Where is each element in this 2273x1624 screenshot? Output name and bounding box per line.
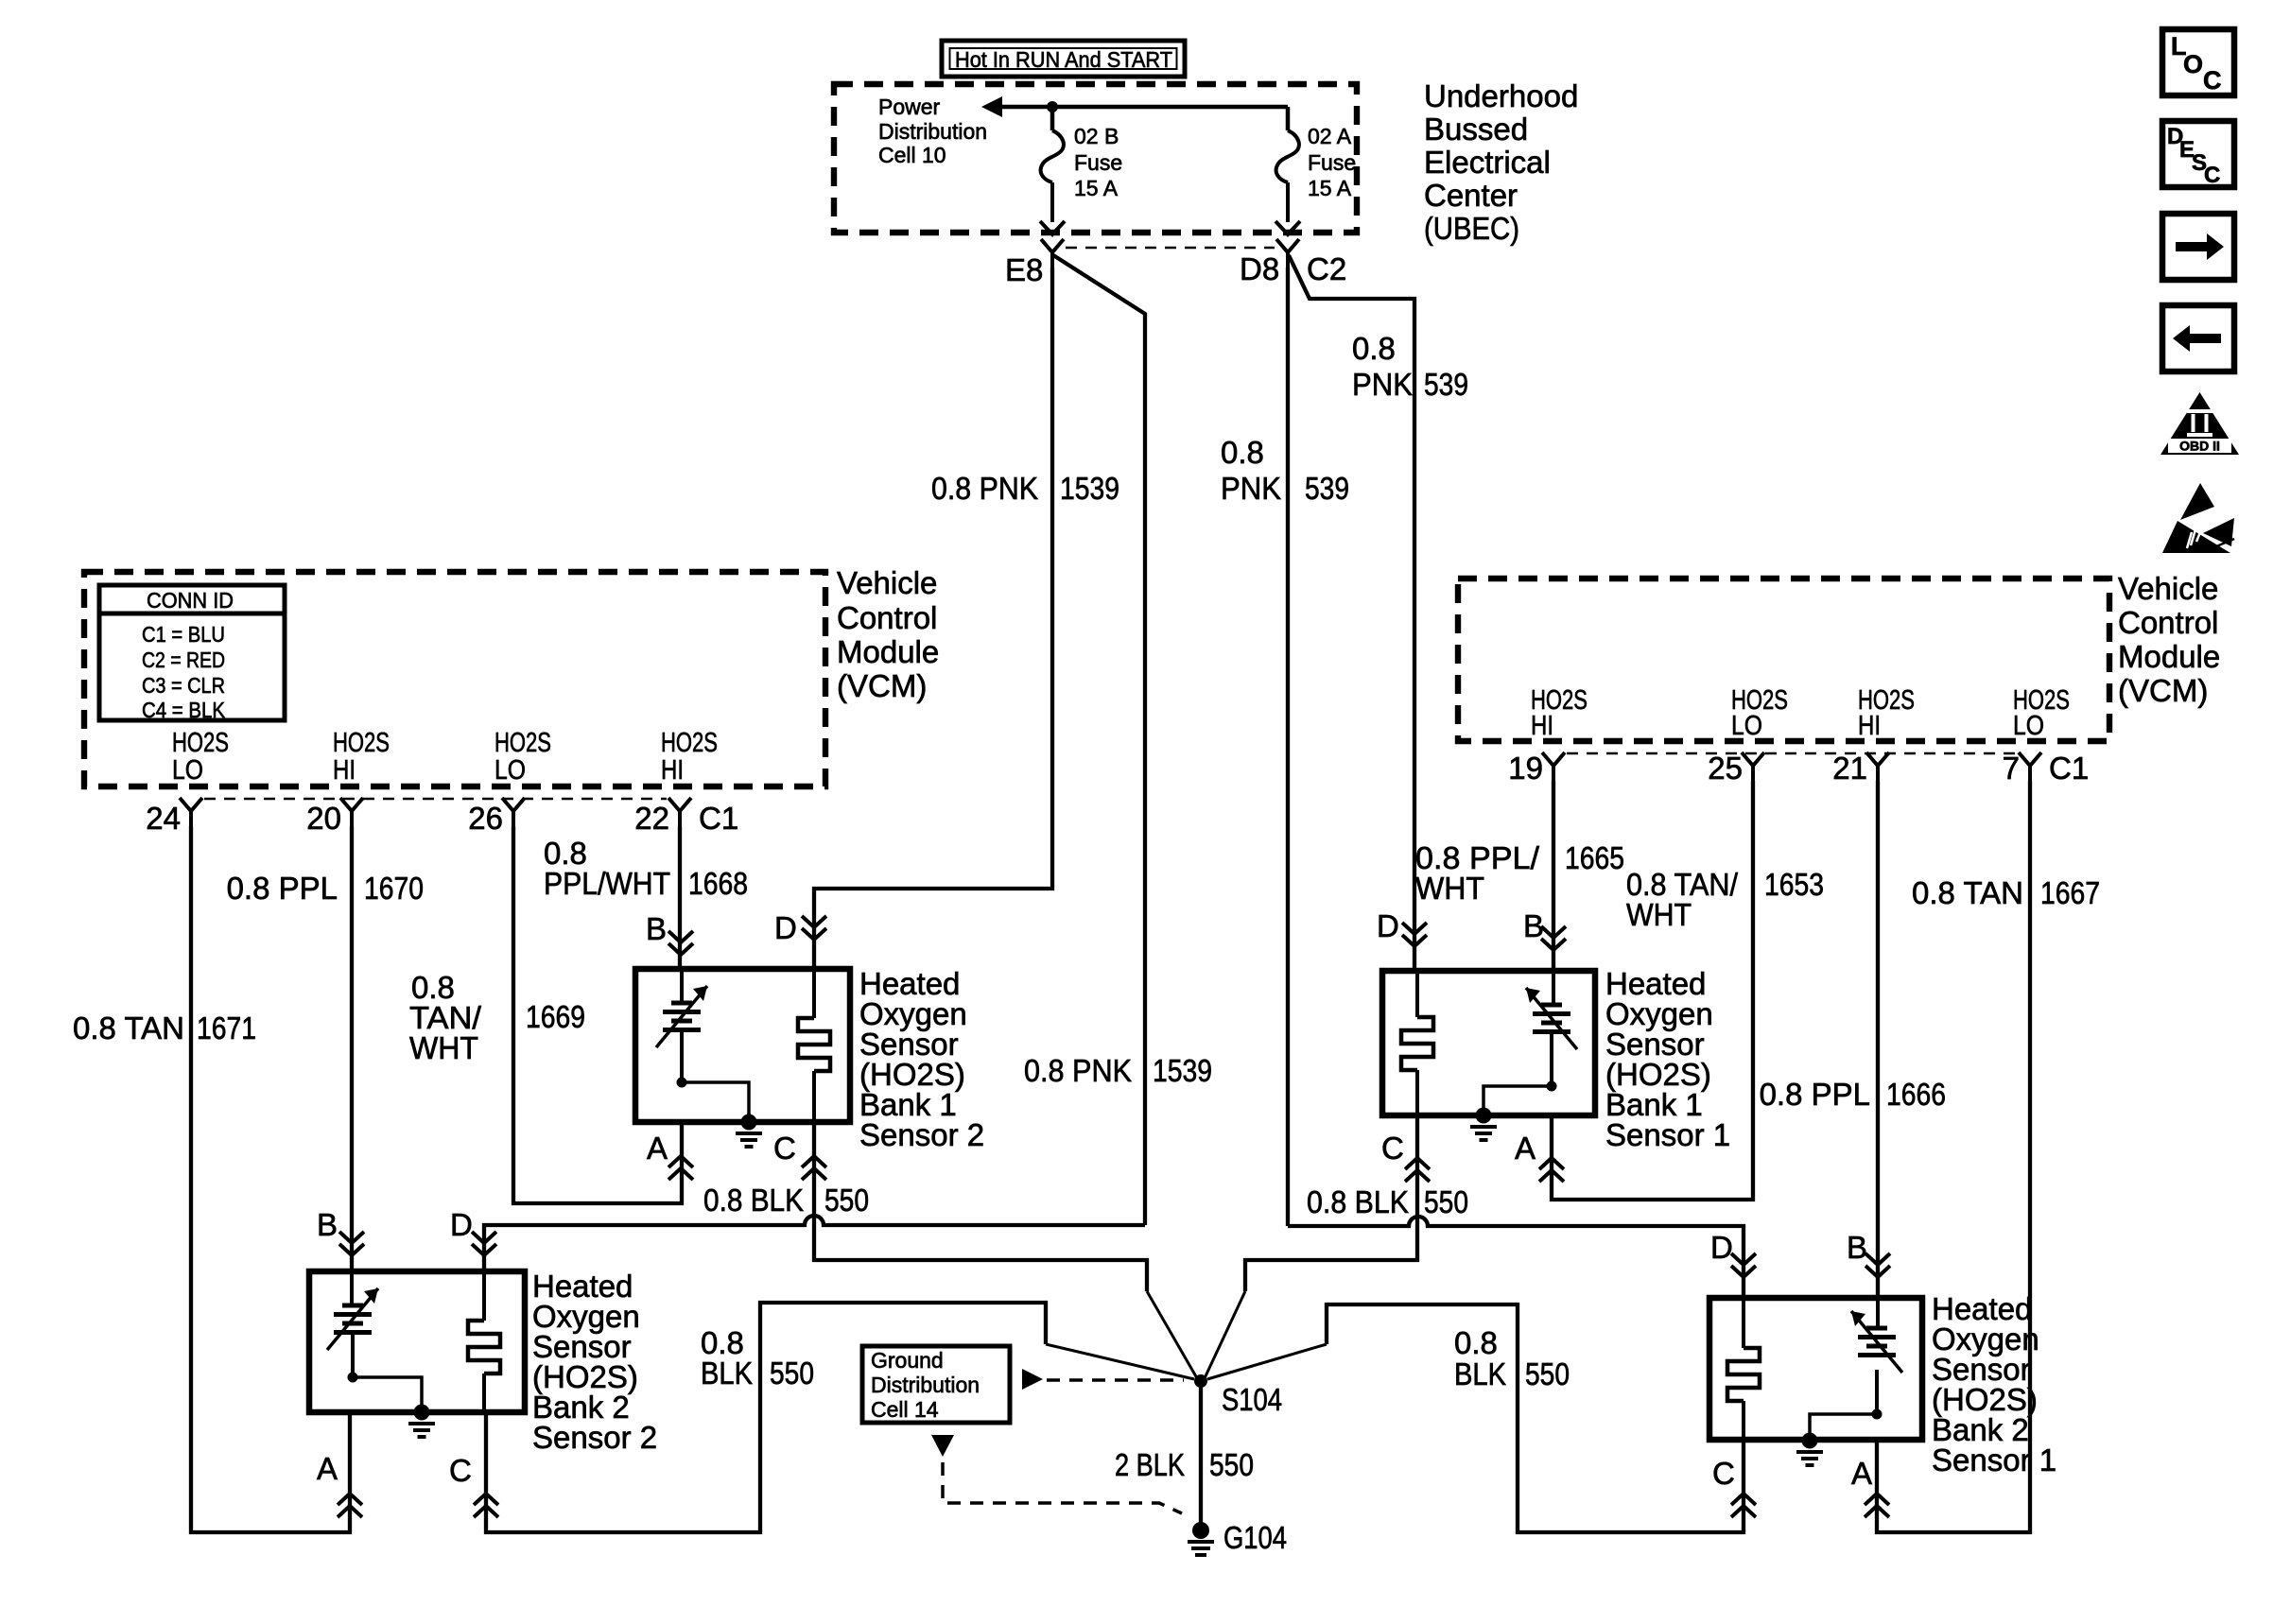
wire label 0.8 PNK 1539 (E8) (931, 471, 1119, 506)
svg-text:LO: LO (2013, 711, 2044, 741)
svg-text:1665: 1665 (1565, 840, 1624, 875)
svg-text:PNK: PNK (1352, 367, 1413, 402)
connector pin 24 (146, 798, 202, 836)
svg-text:B: B (646, 911, 667, 946)
svg-text:1667: 1667 (2040, 875, 2100, 910)
svg-text:HO2S: HO2S (495, 728, 551, 758)
label Heated Oxygen Sensor (HO2S) Bank 1 Sensor 2 (859, 966, 984, 1152)
svg-text:PNK: PNK (1221, 471, 1281, 506)
svg-text:0.8 PNK: 0.8 PNK (1024, 1053, 1132, 1088)
wire splice diagonal B1S2 (1147, 1291, 1197, 1378)
wire B1S1 C BLK 550 to S104 (1245, 1115, 1417, 1291)
svg-text:D: D (450, 1207, 473, 1242)
wire label 0.8 PNK 539 (D8) (1221, 435, 1349, 506)
svg-text:26: 26 (468, 801, 503, 836)
svg-text:B: B (1847, 1230, 1867, 1265)
pin C arrows B1S2 (773, 1131, 826, 1180)
pin D arrows B1S2 (774, 910, 826, 945)
svg-text:B: B (1523, 908, 1544, 943)
CONN ID table (99, 585, 285, 722)
svg-text:BLK: BLK (701, 1356, 753, 1391)
wire label 0.8 BLK 550 (B1S1) (1307, 1184, 1468, 1219)
pin A arrows B2S1 (1851, 1456, 1889, 1517)
icon OBD II triangle (2160, 392, 2239, 455)
power feed wire with junction (1000, 101, 1288, 130)
svg-text:1671: 1671 (197, 1011, 256, 1045)
svg-text:C: C (1712, 1456, 1735, 1491)
pin label HO2S LO (26) (495, 728, 551, 786)
svg-text:7: 7 (2003, 751, 2020, 786)
svg-text:Cell 14: Cell 14 (871, 1397, 939, 1422)
svg-text:1670: 1670 (364, 871, 424, 906)
svg-text:A: A (647, 1131, 668, 1166)
pin C arrows B2S1 (1712, 1456, 1756, 1517)
wire label 0.8 PNK 539 (C2) (1352, 331, 1468, 402)
svg-text:25: 25 (1708, 751, 1743, 786)
sensor element B2S1 (1851, 1298, 1902, 1414)
pin label HO2S LO (24) (172, 728, 229, 786)
svg-text:HI: HI (1531, 711, 1553, 741)
pin D arrows B1S1 (1377, 908, 1427, 946)
HO2S Bank1 Sensor2 box (635, 969, 850, 1122)
svg-text:0.8 BLK: 0.8 BLK (703, 1183, 804, 1218)
svg-text:C: C (449, 1453, 472, 1488)
wire fuse 02A output arrow (1275, 182, 1300, 234)
svg-text:C2 = RED: C2 = RED (142, 648, 225, 672)
wire VCM7 TAN 1667 to B2S1 A (1877, 781, 2030, 1532)
svg-text:(UBEC): (UBEC) (1424, 211, 1519, 246)
svg-text:1669: 1669 (526, 999, 585, 1034)
svg-text:Power: Power (878, 95, 941, 119)
svg-text:O: O (2183, 50, 2203, 78)
wire label 0.8 TAN/WHT 1669 (409, 970, 585, 1065)
wire B1S2 C BLK 550 to S104 (814, 1122, 1147, 1291)
svg-text:0.8 TAN: 0.8 TAN (73, 1011, 184, 1045)
svg-text:OBD II: OBD II (2179, 439, 2220, 454)
HO2S Bank2 Sensor2 box (309, 1271, 525, 1412)
label box "Hot In RUN And START" (942, 41, 1185, 77)
svg-text:HI: HI (661, 755, 684, 786)
wire label 0.8 BLK 550 (right riser) (1454, 1325, 1570, 1391)
splice S104 (1194, 1374, 1282, 1417)
wire B1S1 A TAN/WHT 1653 to VCM25 (1552, 781, 1753, 1200)
wire splice diagonal B2S1 (1207, 1344, 1327, 1379)
wire label 0.8 PPL 1670 (227, 871, 424, 906)
svg-text:S104: S104 (1222, 1382, 1282, 1417)
svg-text:1653: 1653 (1764, 867, 1824, 902)
wire E8 PNK 1539 down (814, 268, 1052, 969)
wire label 0.8 TAN/WHT 1653 (1626, 867, 1824, 932)
svg-text:BLK: BLK (1454, 1356, 1506, 1391)
svg-text:C: C (773, 1131, 796, 1166)
internal ground B2S2 (348, 1373, 436, 1438)
icon LOC box (2162, 29, 2234, 95)
wire E8 branch diagonal PNK 1539 (1053, 255, 1145, 1225)
svg-text:Sensor 2: Sensor 2 (859, 1117, 984, 1152)
svg-text:1539: 1539 (1060, 471, 1119, 506)
svg-text:Module: Module (837, 634, 939, 669)
svg-text:2 BLK: 2 BLK (1115, 1447, 1185, 1482)
pin label HO2S LO (25) (1731, 685, 1788, 741)
fuse F1 02B 15A (1041, 124, 1123, 200)
svg-text:WHT: WHT (1415, 871, 1484, 906)
sensor element B1S2 (656, 969, 707, 1082)
pin label HO2S LO (7) (2013, 685, 2070, 741)
wire VCM26 TAN/WHT 1669 to B1S2 A (513, 826, 682, 1203)
pin label HO2S HI (22) (661, 728, 718, 786)
svg-text:Module: Module (2118, 639, 2220, 674)
HO2S Bank1 Sensor1 box (1382, 971, 1595, 1115)
pin B arrows B1S2 (646, 911, 693, 955)
fuse F2 02A 15A (1276, 124, 1357, 200)
svg-text:0.8 TAN: 0.8 TAN (1912, 875, 2023, 910)
heater element B1S2 (798, 969, 830, 1122)
svg-text:D: D (1377, 908, 1399, 943)
heater element B1S1 (1401, 971, 1433, 1115)
svg-text:D: D (774, 910, 797, 945)
svg-text:CONN ID: CONN ID (147, 588, 234, 613)
svg-text:0.8 BLK: 0.8 BLK (1307, 1184, 1409, 1219)
svg-text:Fuse: Fuse (1308, 150, 1356, 175)
label Vehicle Control Module (VCM) left (837, 565, 939, 703)
svg-text:15 A: 15 A (1308, 176, 1352, 200)
wire C2 PNK 539 branch (1289, 255, 1414, 971)
connector E8 (1005, 239, 1064, 287)
svg-text:Hot In RUN And START: Hot In RUN And START (955, 47, 1172, 72)
wire label 0.8 PNK 1539 (mid) (1024, 1053, 1212, 1088)
svg-text:C1 = BLU: C1 = BLU (142, 622, 225, 647)
svg-text:Cell 10: Cell 10 (878, 143, 946, 167)
svg-text:Control: Control (2118, 605, 2218, 640)
pin C arrows B2S2 (449, 1453, 498, 1517)
svg-text:(VCM): (VCM) (2118, 673, 2208, 708)
pin A arrows B1S2 (647, 1131, 693, 1180)
svg-text:Vehicle: Vehicle (2118, 571, 2218, 606)
svg-text:(VCM): (VCM) (837, 668, 927, 703)
pin D arrows B2S2 (450, 1207, 496, 1255)
svg-text:Electrical: Electrical (1424, 145, 1551, 180)
svg-text:Control: Control (837, 600, 937, 635)
svg-text:A: A (1515, 1131, 1536, 1166)
ground G104 (1188, 1520, 1287, 1555)
wire splice diagonal B2S2 (1046, 1344, 1194, 1379)
icon back arrow box (2162, 305, 2234, 371)
wire splice diagonal B1S1 (1205, 1291, 1245, 1378)
svg-text:LO: LO (495, 755, 526, 786)
svg-text:02 B: 02 B (1074, 124, 1119, 148)
pin label HO2S HI (21) (1858, 685, 1915, 741)
svg-text:HI: HI (333, 755, 356, 786)
svg-text:LO: LO (1731, 711, 1762, 741)
svg-text:20: 20 (306, 801, 341, 836)
wire label 0.8 BLK 550 (left riser) (701, 1325, 814, 1391)
heater element B2S1 (1727, 1298, 1760, 1440)
svg-text:19: 19 (1508, 751, 1543, 786)
wire VCM22 PPL/WHT 1668 to B1S2 B (678, 826, 682, 969)
svg-text:C: C (2204, 163, 2220, 188)
svg-text:1539: 1539 (1153, 1053, 1212, 1088)
wire label 0.8 TAN 1671 (73, 1011, 256, 1045)
VCM right dashed box (1458, 579, 2109, 741)
svg-text:A: A (1851, 1456, 1872, 1491)
svg-text:Ground: Ground (871, 1348, 944, 1373)
svg-text:0.8 PPL: 0.8 PPL (1760, 1077, 1870, 1112)
svg-text:550: 550 (1209, 1447, 1254, 1482)
svg-text:0.8 PPL: 0.8 PPL (227, 871, 338, 906)
wire D8 PNK 539 down (1286, 268, 1290, 1226)
svg-text:C3 = CLR: C3 = CLR (142, 673, 225, 698)
svg-text:02 A: 02 A (1308, 124, 1352, 148)
svg-text:C2: C2 (1307, 251, 1346, 286)
svg-text:E8: E8 (1005, 252, 1043, 287)
internal ground B1S1 (1470, 1081, 1557, 1141)
pin A arrows B2S2 (317, 1451, 362, 1517)
arrowhead to Power Distribution (981, 96, 1002, 117)
wire fuse 02B output arrow (1040, 182, 1065, 234)
wire B2S1 C BLK 550 to S104 (1327, 1304, 1744, 1532)
svg-text:0.8: 0.8 (1352, 331, 1396, 366)
dashed connector face line E8-D8 (1066, 247, 1275, 250)
svg-text:21: 21 (1832, 751, 1867, 786)
label Power Distribution Cell 10 (878, 95, 987, 167)
svg-text:Center: Center (1424, 178, 1518, 213)
svg-text:24: 24 (146, 801, 181, 836)
svg-text:550: 550 (824, 1183, 869, 1218)
icon DESC box (2162, 121, 2234, 188)
wire VCM24 TAN 1671 to B2S2 A (191, 826, 350, 1532)
wire PNK 1539 to B2S2 D (hop over C wire) (484, 1216, 1145, 1271)
connector D8 / C2 (1240, 239, 1346, 286)
svg-text:550: 550 (1424, 1184, 1468, 1219)
svg-text:HO2S: HO2S (661, 728, 718, 758)
pin B arrows B2S1 (1847, 1230, 1890, 1277)
pin label HO2S HI (19) (1531, 685, 1588, 741)
svg-text:D: D (1710, 1230, 1733, 1265)
connector pin 26 (468, 798, 525, 836)
svg-text:G104: G104 (1223, 1520, 1287, 1555)
wire VCM21 PPL 1666 to B2S1 B (1876, 781, 1880, 1298)
dashed connector face line C1 left (204, 798, 667, 801)
pin C arrows B1S1 (1381, 1131, 1430, 1182)
wire VCM20 PPL 1670 to B2S2 B (350, 826, 354, 1271)
svg-text:D8: D8 (1240, 251, 1279, 286)
svg-text:A: A (317, 1451, 338, 1486)
svg-text:C1: C1 (2049, 751, 2089, 786)
wire 2 BLK 550 S104 to G104 (1199, 1381, 1203, 1526)
icon ESD symbol (2162, 483, 2234, 553)
internal ground B1S2 (677, 1078, 763, 1148)
svg-text:HO2S: HO2S (333, 728, 390, 758)
wire label 2 BLK 550 (1115, 1447, 1254, 1482)
svg-text:C: C (2203, 66, 2222, 95)
svg-text:Distribution: Distribution (878, 119, 987, 144)
pin A arrows B1S1 (1515, 1131, 1564, 1182)
svg-text:C: C (1381, 1131, 1404, 1166)
dashed reference arrow to S104 (1022, 1369, 1184, 1390)
svg-text:Sensor 1: Sensor 1 (1605, 1117, 1730, 1152)
pin B arrows B1S1 (1523, 908, 1566, 950)
wire PNK 539 to B2S1 D (hop over C wire) (1288, 1217, 1744, 1298)
svg-text:HI: HI (1858, 711, 1881, 741)
svg-text:550: 550 (770, 1356, 814, 1391)
wire label 0.8 TAN 1667 (1912, 875, 2100, 910)
svg-text:PPL/WHT: PPL/WHT (544, 866, 670, 901)
sensor element B2S2 (327, 1271, 378, 1377)
VCM left dashed box (84, 572, 825, 786)
internal ground B2S1 (1796, 1409, 1883, 1466)
connector pin 21 (1832, 751, 1889, 786)
connector pin 19 (1508, 751, 1565, 786)
Ground Distribution Cell 14 box (862, 1346, 1010, 1423)
svg-text:22: 22 (634, 801, 669, 836)
svg-text:550: 550 (1525, 1356, 1570, 1391)
wire label 0.8 BLK 550 (B1S2) (703, 1183, 869, 1218)
wire label 0.8 PPL/WHT 1668 (544, 836, 748, 901)
svg-text:C4 = BLK: C4 = BLK (142, 698, 226, 722)
svg-text:15 A: 15 A (1074, 176, 1119, 200)
svg-text:Vehicle: Vehicle (837, 565, 937, 600)
svg-text:LO: LO (172, 755, 203, 786)
svg-text:1668: 1668 (688, 866, 748, 901)
svg-text:0.8: 0.8 (1454, 1325, 1498, 1360)
label Heated Oxygen Sensor (HO2S) Bank 2 Sensor 2 (532, 1269, 657, 1455)
pin D arrows B2S1 (1710, 1230, 1756, 1277)
svg-text:WHT: WHT (409, 1030, 478, 1065)
svg-text:B: B (317, 1207, 338, 1242)
icon forward arrow box (2162, 214, 2234, 280)
connector pin 22, C1 (634, 798, 738, 836)
connector pin 7, C1 (2003, 751, 2090, 786)
pin B arrows B2S2 (317, 1207, 364, 1255)
svg-text:Distribution: Distribution (871, 1373, 980, 1397)
svg-text:Fuse: Fuse (1074, 150, 1122, 175)
HO2S Bank2 Sensor1 box (1709, 1298, 1922, 1440)
svg-text:0.8 PNK: 0.8 PNK (931, 471, 1038, 506)
label Heated Oxygen Sensor (HO2S) Bank 2 Sensor 1 (1932, 1291, 2056, 1477)
svg-text:WHT: WHT (1626, 897, 1692, 932)
wire B2S2 C BLK 550 to S104 (486, 1303, 1046, 1532)
svg-text:Sensor 2: Sensor 2 (532, 1420, 657, 1455)
connector pin 20 (306, 798, 363, 836)
UBEC dashed box (834, 84, 1357, 233)
svg-text:Underhood: Underhood (1424, 78, 1578, 113)
dashed reference arrow to G104 (931, 1435, 1182, 1513)
svg-text:539: 539 (1424, 367, 1468, 402)
svg-text:Sensor 1: Sensor 1 (1932, 1443, 2056, 1477)
wire label 0.8 PPL 1666 (1760, 1077, 1946, 1112)
svg-text:1666: 1666 (1886, 1077, 1946, 1112)
label Underhood Bussed Electrical Center (UBEC) (1424, 78, 1578, 246)
label Vehicle Control Module (VCM) right (2118, 571, 2220, 708)
dashed connector face line C1 right (1567, 752, 2017, 755)
svg-text:HO2S: HO2S (172, 728, 229, 758)
wire label 0.8 PPL/WHT 1665 (1415, 840, 1624, 906)
label Heated Oxygen Sensor (HO2S) Bank 1 Sensor 1 (1605, 966, 1730, 1152)
svg-text:Bussed: Bussed (1424, 112, 1528, 147)
svg-text:C1: C1 (699, 801, 738, 836)
pin label HO2S HI (20) (333, 728, 390, 786)
svg-text:0.8: 0.8 (1221, 435, 1264, 470)
heater element B2S2 (468, 1271, 500, 1412)
connector pin 25 (1708, 751, 1764, 786)
svg-text:539: 539 (1305, 471, 1349, 506)
wire VCM19 PPL/WHT 1665 to B1S1 B (1552, 781, 1555, 971)
sensor element B1S1 (1526, 971, 1577, 1086)
